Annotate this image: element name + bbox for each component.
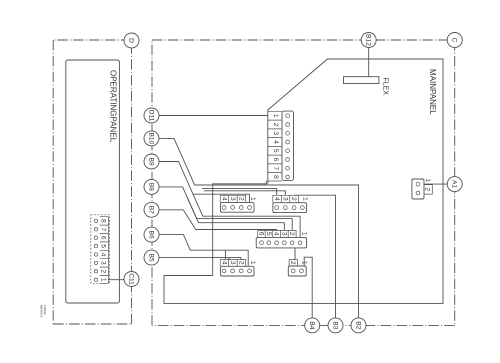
svg-text:B12: B12	[365, 34, 372, 46]
operating panel box	[66, 60, 120, 303]
connector X1 cells	[268, 111, 282, 181]
circle B3	[328, 318, 343, 333]
circle B12	[361, 33, 376, 48]
svg-text:B3: B3	[331, 321, 338, 329]
connector A (4-pin)	[221, 203, 255, 213]
main panel enclosure (dash-dot boundary)	[152, 40, 455, 325]
svg-text:2: 2	[237, 261, 244, 265]
circle C	[447, 33, 462, 48]
svg-text:8: 8	[100, 219, 107, 223]
svg-text:4: 4	[220, 197, 227, 201]
svg-text:2: 2	[289, 261, 296, 265]
circle C11	[124, 272, 139, 287]
svg-text:5: 5	[272, 149, 279, 153]
FLEX bar	[344, 77, 379, 84]
wire C11 to pin1	[108, 279, 124, 281]
circle D11	[144, 108, 159, 123]
svg-text:6: 6	[258, 232, 265, 236]
connector X1 flex 8-pin (main panel)	[282, 111, 294, 180]
wire A drops	[224, 194, 249, 202]
wire B9 to C1	[159, 162, 300, 238]
svg-text:B4: B4	[308, 321, 315, 329]
svg-text:4: 4	[273, 197, 280, 201]
wire E pin2 to C	[294, 248, 296, 260]
svg-text:6: 6	[272, 158, 279, 162]
svg-text:3: 3	[229, 261, 236, 265]
circle B7	[144, 202, 159, 217]
circle B4	[305, 318, 320, 333]
svg-text:B2: B2	[354, 321, 361, 329]
svg-text:1: 1	[301, 232, 308, 236]
svg-text:3: 3	[280, 232, 287, 236]
circle B6	[144, 227, 159, 242]
svg-text:2: 2	[288, 232, 295, 236]
circle D	[124, 33, 139, 48]
circle B5	[144, 250, 159, 265]
wire B5 to D	[159, 258, 241, 260]
svg-text:1: 1	[272, 114, 279, 118]
svg-text:5: 5	[100, 244, 107, 248]
wire B12 to FLEX	[368, 48, 370, 77]
svg-text:4: 4	[220, 261, 227, 265]
connector X8 operating panel (dotted box)	[91, 215, 110, 283]
wire branch to X1 pin8	[265, 181, 267, 185]
svg-text:C: C	[451, 38, 458, 43]
svg-text:1: 1	[249, 197, 256, 201]
wire B7 to C4	[159, 210, 277, 231]
circle B8	[144, 179, 159, 194]
svg-text:B5: B5	[147, 254, 154, 262]
svg-text:110492: 110492	[43, 305, 47, 315]
svg-text:B9: B9	[147, 157, 154, 165]
connector X8 cell grid	[100, 217, 109, 284]
circle B9	[144, 154, 159, 169]
svg-text:2: 2	[100, 269, 107, 273]
wire feed connector A	[193, 193, 249, 195]
svg-text:B8: B8	[147, 183, 154, 191]
svg-text:D11: D11	[147, 110, 154, 122]
wire B pin2 to B3 riser	[294, 195, 335, 318]
connector E (2-pin)	[288, 266, 306, 276]
svg-text:MIG4972: MIG4972	[40, 305, 44, 318]
svg-text:MAINPANEL: MAINPANEL	[428, 69, 437, 115]
svg-text:A1: A1	[451, 180, 458, 188]
svg-text:1: 1	[301, 261, 308, 265]
connector C (6-pin)	[256, 237, 306, 248]
wire B pin4 up-left	[202, 189, 277, 196]
svg-text:OPERATINGPANEL: OPERATINGPANEL	[109, 70, 118, 143]
connector B (4-pin)	[273, 203, 307, 213]
svg-text:2: 2	[272, 123, 279, 127]
svg-text:D: D	[127, 38, 134, 43]
wire B pin3 up-left	[204, 191, 285, 196]
wire B10 bus	[159, 138, 359, 318]
svg-text:1: 1	[100, 278, 107, 282]
wire to C3	[187, 197, 284, 231]
wire B8 to C2	[159, 187, 292, 231]
svg-text:2: 2	[424, 187, 431, 191]
svg-text:4: 4	[100, 253, 107, 257]
svg-text:B7: B7	[147, 206, 154, 214]
svg-text:1: 1	[249, 261, 256, 265]
svg-text:1: 1	[424, 178, 431, 182]
svg-text:8: 8	[272, 175, 279, 179]
svg-text:3: 3	[100, 261, 107, 265]
wire A1 connector to A1 circle	[424, 183, 447, 185]
svg-text:1: 1	[301, 197, 308, 201]
wire B4 riser to E	[304, 257, 312, 318]
wire B6 to D	[159, 235, 248, 267]
wire D11 to X1 pin1	[159, 115, 268, 117]
operating panel enclosure (dash-dot boundary)	[53, 40, 131, 324]
svg-text:B6: B6	[147, 231, 154, 239]
connector A1 (2-pin vertical)	[412, 179, 424, 199]
svg-text:2: 2	[237, 197, 244, 201]
svg-text:3: 3	[272, 131, 279, 135]
svg-text:6: 6	[100, 236, 107, 240]
svg-text:4: 4	[273, 232, 280, 236]
svg-text:C11: C11	[127, 273, 134, 285]
connector X8 pins	[94, 219, 97, 281]
svg-text:B10: B10	[147, 133, 154, 145]
svg-text:3: 3	[229, 197, 236, 201]
circle B10	[144, 131, 159, 146]
svg-text:2: 2	[290, 197, 297, 201]
svg-text:7: 7	[100, 227, 107, 231]
circle B2	[351, 318, 366, 333]
svg-text:4: 4	[272, 140, 279, 144]
svg-text:FLEX: FLEX	[382, 78, 389, 96]
svg-text:5: 5	[265, 232, 272, 236]
mainpanel outline	[164, 59, 443, 303]
connector D (4-pin)	[221, 266, 255, 276]
circle A1	[447, 177, 462, 192]
svg-text:3: 3	[281, 197, 288, 201]
svg-text:7: 7	[272, 166, 279, 170]
